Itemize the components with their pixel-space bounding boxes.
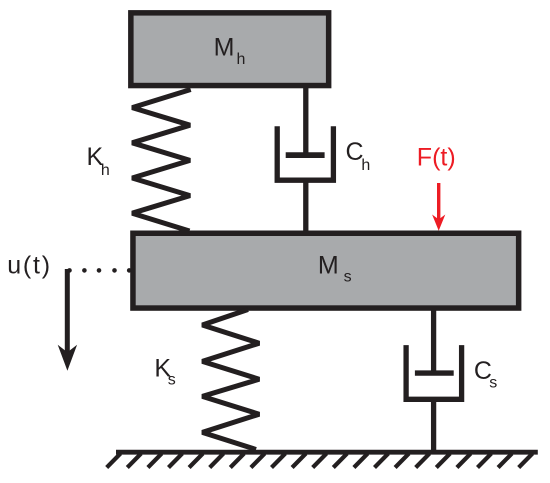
spring Kh xyxy=(132,90,191,232)
damper Cs upper rod xyxy=(431,309,436,373)
svg-text:s: s xyxy=(168,371,176,388)
ground line xyxy=(116,450,538,455)
damper Cs lower rod xyxy=(431,399,436,452)
damper Ch cylinder xyxy=(277,126,333,180)
label Kh xyxy=(87,143,110,179)
svg-text:u(t): u(t) xyxy=(7,251,52,279)
svg-text:F(t): F(t) xyxy=(417,144,456,172)
svg-text:s: s xyxy=(489,374,497,391)
damper Ch piston rod (upper) xyxy=(303,87,308,155)
svg-text:M: M xyxy=(318,251,339,279)
spring Ks xyxy=(202,310,259,450)
label Ch xyxy=(346,138,371,174)
label Cs xyxy=(474,357,497,391)
mass Ms xyxy=(133,233,519,308)
force arrow F(t) xyxy=(432,183,445,231)
svg-text:h: h xyxy=(101,162,110,179)
svg-text:M: M xyxy=(214,33,235,61)
damper Cs cylinder xyxy=(406,345,462,399)
ground hatching xyxy=(107,454,533,468)
damper Cs piston plate xyxy=(415,370,454,375)
svg-text:h: h xyxy=(361,157,370,174)
damper Ch lower rod xyxy=(303,180,308,233)
label Ks xyxy=(154,355,175,389)
mass Mh xyxy=(131,13,329,86)
damper Ch piston plate xyxy=(286,152,325,158)
svg-text:s: s xyxy=(344,269,352,286)
dotted line from u(t) to Ms xyxy=(67,268,131,273)
svg-text:h: h xyxy=(237,51,246,68)
displacement arrow u(t) xyxy=(58,269,77,371)
